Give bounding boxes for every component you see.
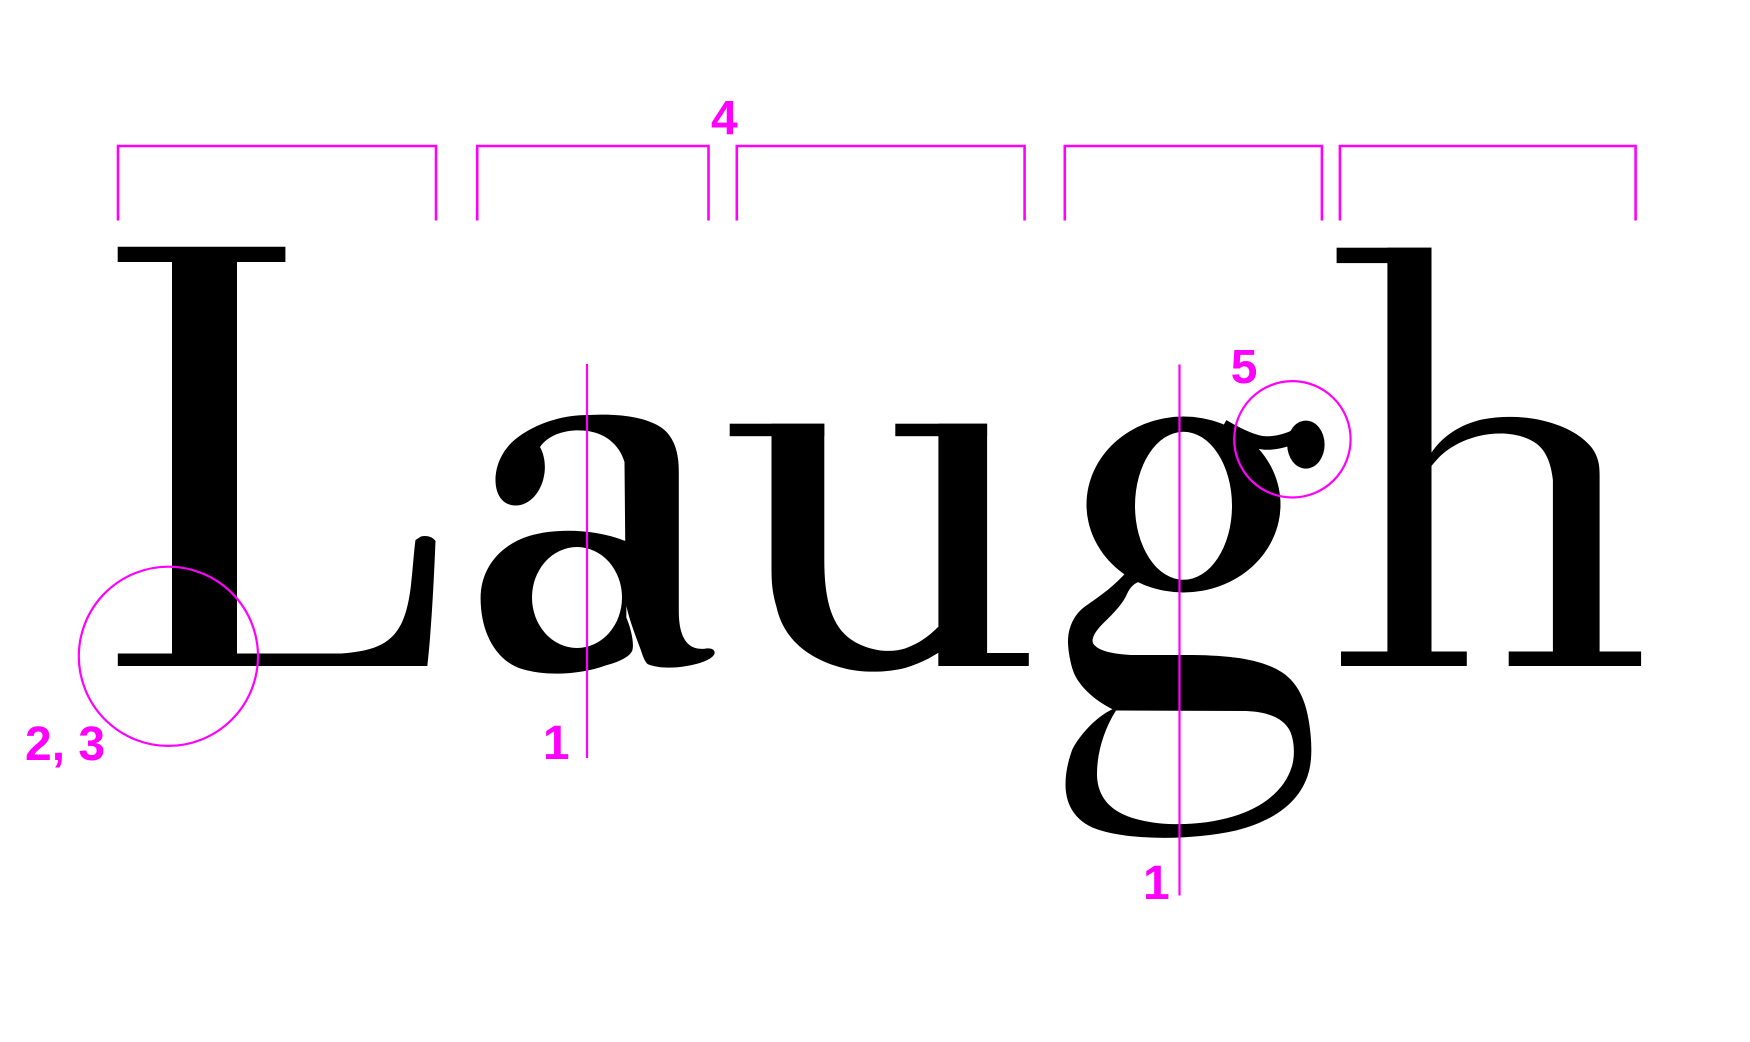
letter h: top serif [1337, 248, 1432, 263]
letter g: ear ball [1287, 421, 1324, 469]
letter a: bowl [481, 531, 633, 674]
letter g: loop counter [1097, 711, 1294, 825]
letter h: right foot serif [1509, 652, 1641, 667]
svg-text:2, 3: 2, 3 [25, 718, 105, 771]
letter h: left foot serif [1341, 652, 1467, 667]
circle at L foot [79, 567, 258, 746]
vertical line through a [586, 364, 588, 758]
letter u: left serif [730, 424, 825, 437]
letter g: ear stroke [1223, 426, 1298, 443]
svg-text:1: 1 [543, 717, 570, 770]
letter a: hook + ball terminal + stem + tail [496, 415, 715, 668]
bracket 1 over L [118, 146, 436, 221]
svg-text:5: 5 [1231, 341, 1258, 394]
letter u: right serif [895, 424, 987, 437]
letter a: bowl counter [532, 547, 622, 648]
letter u: right stem [938, 424, 987, 666]
letter g: lower loop + neck + band [1066, 570, 1312, 838]
letter u: left stem + bottom bowl [772, 424, 948, 672]
letter L [118, 247, 436, 666]
bracket 3 over u [737, 146, 1025, 221]
letter h: arch + right leg [1428, 417, 1600, 666]
svg-text:4: 4 [711, 93, 738, 146]
letter u: foot serif [938, 653, 1028, 666]
bracket 4 over g [1065, 146, 1322, 221]
bracket 5 over h [1340, 146, 1636, 221]
letter g: upper bowl counter [1135, 432, 1232, 580]
bracket 2 over a [477, 146, 708, 221]
circle at g ear [1234, 381, 1350, 497]
svg-text:1: 1 [1143, 857, 1170, 910]
vertical line through g [1178, 365, 1180, 896]
letter h: stem [1387, 248, 1431, 666]
letter g: upper bowl [1087, 417, 1281, 593]
